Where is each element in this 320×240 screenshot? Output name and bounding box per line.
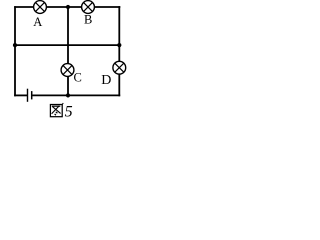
svg-text:D: D — [101, 73, 111, 88]
svg-text:B: B — [84, 13, 92, 27]
lamp D — [113, 61, 126, 74]
node junction left-middle — [13, 43, 17, 47]
svg-text:C: C — [74, 71, 82, 85]
wire right vertical upper — [118, 6, 120, 61]
node junction right-middle — [117, 43, 121, 47]
label figure 图 glyph — [50, 103, 63, 117]
wire between lamp A and lamp B — [46, 6, 81, 8]
svg-text:A: A — [33, 15, 42, 29]
wire right vertical lower — [118, 74, 120, 96]
battery — [28, 89, 32, 102]
wire middle vertical lower (lamp C to bottom wire) — [67, 76, 69, 95]
lamp B — [82, 1, 95, 14]
wire top left segment — [14, 6, 34, 8]
wire middle horizontal — [14, 44, 120, 46]
wire bottom right (battery to bottom-right corner) — [32, 94, 120, 96]
node junction bottom (lamp C branch) — [66, 93, 70, 97]
wire left vertical — [14, 6, 16, 96]
lamp C — [61, 64, 74, 77]
lamp A — [34, 1, 47, 14]
wire middle vertical upper (top wire to middle wire) — [67, 7, 69, 64]
node junction top (between A and B) — [66, 5, 70, 9]
wire bottom left (corner to battery) — [14, 94, 27, 96]
wire lamp B to top-right corner — [94, 6, 120, 8]
svg-text:5: 5 — [65, 104, 73, 121]
